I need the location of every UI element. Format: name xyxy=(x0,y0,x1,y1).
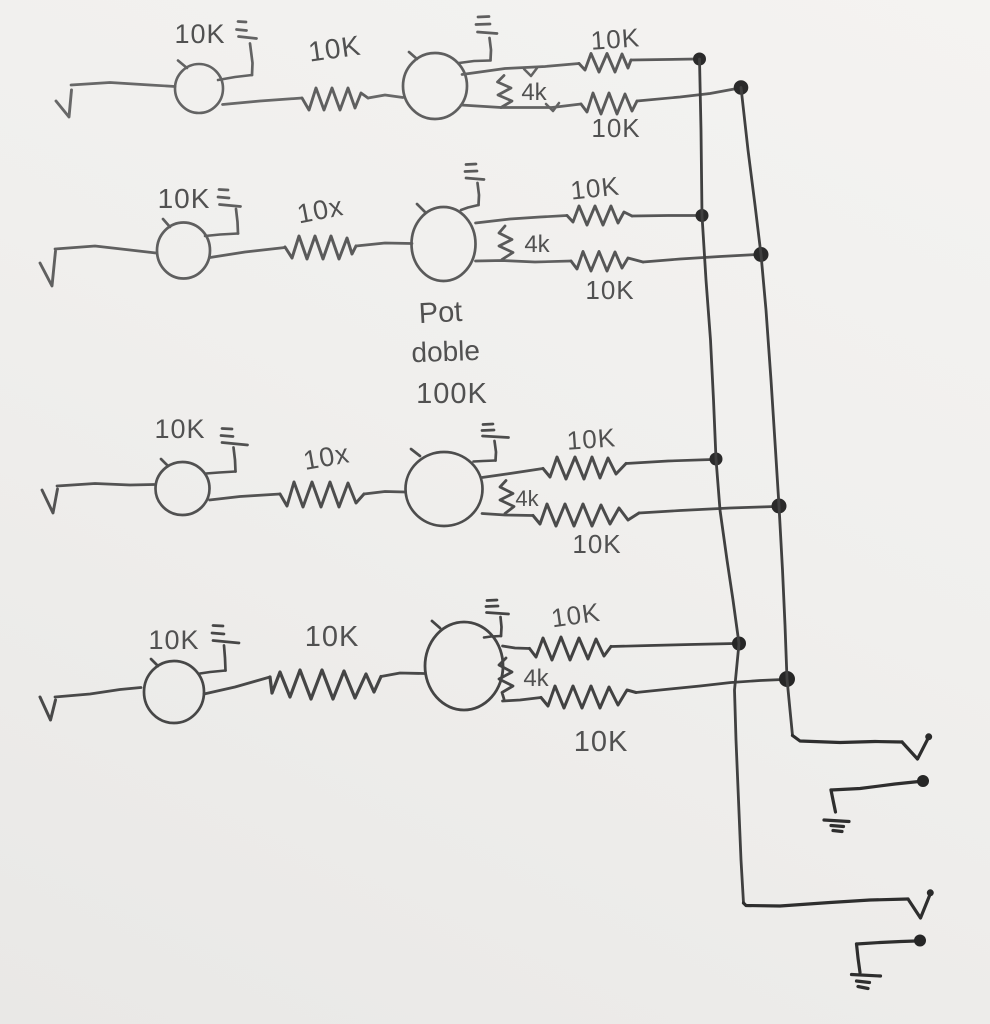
potentiometer P1B xyxy=(403,52,467,119)
resistor R34 10K xyxy=(533,504,639,526)
wire R34 to right bus xyxy=(639,507,775,514)
junction dot row4 right bus xyxy=(780,672,795,687)
wire P2B lower to R24 xyxy=(476,261,572,263)
wire V4 to P4A xyxy=(55,688,141,698)
node V1 input xyxy=(56,90,72,117)
svg-text:10K: 10K xyxy=(158,183,211,214)
wire P1A to ground G1A xyxy=(218,75,252,80)
svg-text:10K: 10K xyxy=(306,30,363,68)
wire left bus vertical xyxy=(700,59,744,903)
svg-text:10K: 10K xyxy=(590,22,641,55)
resistor R14 10K xyxy=(581,93,637,114)
wire R24 to right bus xyxy=(643,255,757,263)
node V3 input xyxy=(42,489,58,513)
wire P3A to R31 xyxy=(210,494,281,500)
svg-text:10K: 10K xyxy=(591,113,640,143)
ground G1B xyxy=(476,17,497,61)
wire right bus vertical xyxy=(741,88,793,736)
wire P1B to ground G1B xyxy=(459,61,491,64)
resistor R33 4K vertical xyxy=(500,481,514,514)
wire V3 to P3A xyxy=(57,484,154,487)
ground G2B xyxy=(465,164,484,205)
junction dot row1 right bus xyxy=(734,81,748,95)
wire output B sleeve to ground xyxy=(857,944,861,973)
wire output A sleeve xyxy=(831,782,919,791)
node V2 input xyxy=(40,251,56,286)
svg-text:10K: 10K xyxy=(574,726,629,758)
junction dot row4 left bus xyxy=(733,637,746,650)
svg-text:10K: 10K xyxy=(566,422,617,455)
wiper arrow tick row1 upper xyxy=(524,68,537,76)
wire P2A to ground G2A xyxy=(205,234,238,237)
wire P4B to ground G4B xyxy=(484,636,501,638)
resistor R41 10K xyxy=(270,670,381,699)
svg-text:100K: 100K xyxy=(416,378,488,410)
wire P2B to ground G2B xyxy=(461,205,479,210)
wire R12 to left bus xyxy=(631,59,696,60)
svg-text:10K: 10K xyxy=(148,625,199,655)
ground G2A xyxy=(218,190,241,234)
wire P4A to ground G4A xyxy=(200,671,226,674)
wire R31 to P3B xyxy=(364,492,405,495)
ground output B xyxy=(852,975,881,989)
wire P4B wiper upper to R42 xyxy=(503,646,530,649)
potentiometer P4B xyxy=(425,621,503,710)
node dot output A tip xyxy=(926,734,932,740)
svg-text:4k: 4k xyxy=(523,665,549,692)
node dot output B tip xyxy=(927,890,933,896)
wire V1 to P1A xyxy=(71,83,175,87)
svg-text:10x: 10x xyxy=(301,438,352,476)
resistor R13 4K vertical xyxy=(498,76,513,108)
svg-text:10K: 10K xyxy=(174,19,225,49)
wire P4A to R41 xyxy=(204,677,270,694)
junction dot row2 right bus xyxy=(754,248,768,262)
ground output A xyxy=(824,820,849,832)
wire P3B to ground G3B xyxy=(474,461,496,462)
wire R32 to left bus xyxy=(626,460,712,464)
wire P4B lower to R44 xyxy=(503,698,542,702)
resistor R24 10K xyxy=(571,252,643,272)
wire R41 to P4B xyxy=(381,673,424,677)
potentiometer P4A xyxy=(144,659,204,723)
ground G4A xyxy=(212,626,239,671)
wire P3B lower to R34 xyxy=(482,514,533,516)
ground G1A xyxy=(237,22,257,76)
wire P2B wiper upper to R22 xyxy=(476,216,568,224)
wire output A sleeve to ground xyxy=(831,790,836,812)
wire P1A to R11 xyxy=(223,98,303,105)
resistor R43 4K vertical xyxy=(499,658,513,699)
node dot output B sleeve xyxy=(915,935,926,946)
svg-text:10K: 10K xyxy=(305,621,360,653)
svg-text:4k: 4k xyxy=(521,79,547,106)
svg-text:10K: 10K xyxy=(585,275,634,305)
wire output B sleeve xyxy=(857,941,916,944)
potentiometer P2B xyxy=(412,204,476,281)
svg-text:4k: 4k xyxy=(515,486,539,511)
node output A tip V xyxy=(902,739,928,760)
potentiometer P1A xyxy=(175,61,223,114)
ground G3B xyxy=(482,424,509,461)
resistor R21 10K xyxy=(285,236,356,259)
junction dot row3 right bus xyxy=(772,499,786,513)
resistor R44 10K xyxy=(541,686,636,708)
wire right bus to output A tip xyxy=(793,736,903,743)
svg-text:10K: 10K xyxy=(154,414,205,444)
resistor R22 10K xyxy=(567,206,632,225)
junction dot row3 left bus xyxy=(710,453,722,465)
svg-text:10K: 10K xyxy=(572,529,621,559)
wire P3B wiper upper to R32 xyxy=(482,469,543,478)
resistor R23 4K vertical xyxy=(499,226,513,260)
wiper arrow tick row1 lower xyxy=(546,103,559,111)
potentiometer P3B xyxy=(406,449,483,526)
svg-text:10K: 10K xyxy=(549,597,602,634)
wire R11 to P1B xyxy=(368,95,403,98)
ground G3A xyxy=(221,429,248,472)
wire P3A to ground G3A xyxy=(206,472,236,474)
potentiometer P2A xyxy=(157,219,210,279)
wire P2A to R21 xyxy=(210,248,285,258)
wire R21 to P2B xyxy=(356,243,412,246)
node output B tip V xyxy=(908,895,930,919)
svg-text:doble: doble xyxy=(411,335,481,368)
wire R44 to right bus xyxy=(636,680,783,693)
label Pot doble 100K xyxy=(411,296,488,410)
potentiometer P3A xyxy=(156,459,210,515)
svg-text:4k: 4k xyxy=(524,231,550,258)
node V4 input xyxy=(40,697,56,720)
junction dot row1 left bus xyxy=(694,53,706,65)
wire left bus to output B tip xyxy=(744,899,909,906)
resistor R31 10K xyxy=(280,482,364,507)
wire P1B wiper upper to R12 xyxy=(462,64,579,75)
resistor R42 10K xyxy=(530,637,612,660)
wire R14 to right bus xyxy=(637,89,737,102)
node dot output A sleeve xyxy=(918,776,929,787)
wire R42 to left bus xyxy=(611,644,735,647)
wire R22 to left bus xyxy=(632,214,699,217)
svg-text:10K: 10K xyxy=(569,171,621,206)
svg-text:10x: 10x xyxy=(295,191,346,229)
resistor R11 10K xyxy=(302,88,368,110)
resistor R12 10K xyxy=(579,54,631,73)
wire P1B lower to R14 xyxy=(461,104,581,108)
resistor R32 10K xyxy=(543,457,626,479)
svg-text:Pot: Pot xyxy=(418,296,463,330)
wire V2 to P2A xyxy=(55,246,156,253)
junction dot row2 left bus xyxy=(696,210,708,222)
ground G4B xyxy=(486,600,509,636)
